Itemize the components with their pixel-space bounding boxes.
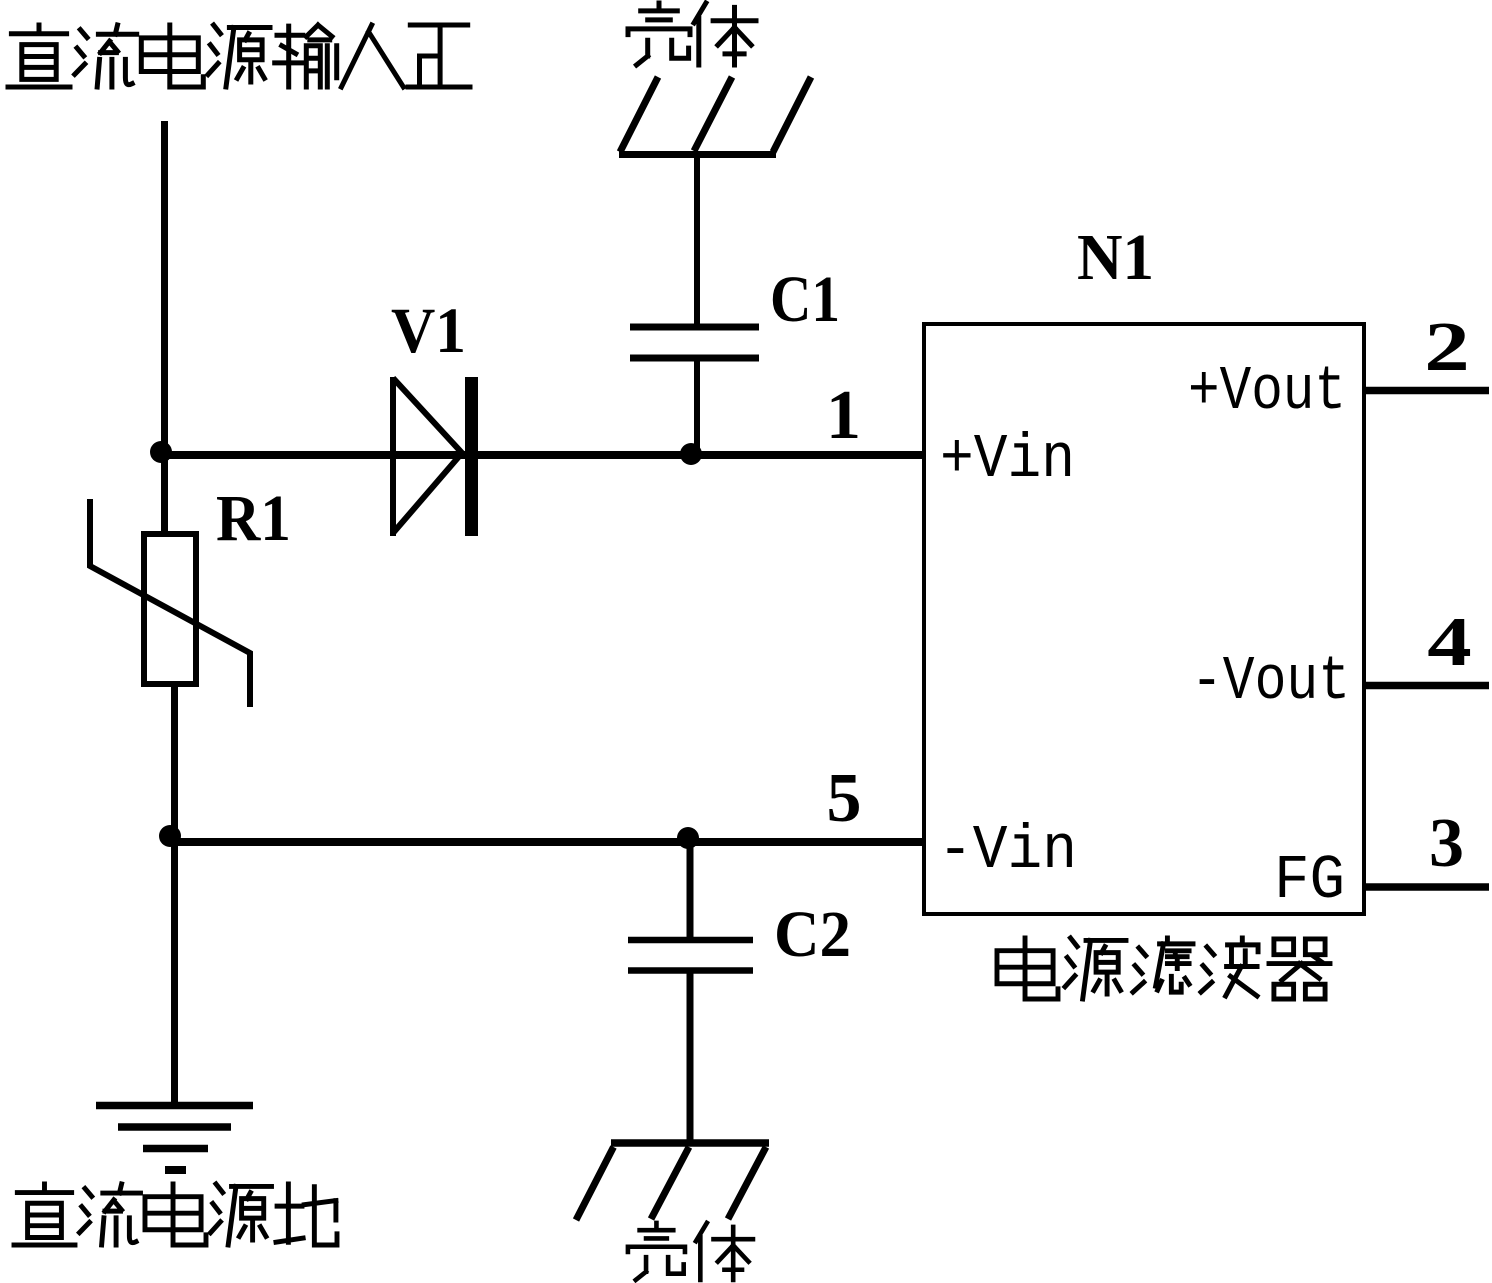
svg-text:FG: FG bbox=[1274, 845, 1345, 916]
svg-text:V1: V1 bbox=[391, 295, 466, 367]
svg-text:N1: N1 bbox=[1077, 221, 1154, 294]
svg-text:+Vin: +Vin bbox=[940, 424, 1075, 495]
svg-text:-Vin: -Vin bbox=[938, 815, 1077, 886]
svg-text:+Vout: +Vout bbox=[1188, 356, 1346, 427]
svg-text:4: 4 bbox=[1427, 604, 1471, 681]
svg-text:R1: R1 bbox=[216, 482, 291, 555]
svg-text:-Vout: -Vout bbox=[1191, 646, 1350, 717]
svg-text:3: 3 bbox=[1429, 805, 1464, 882]
svg-text:C2: C2 bbox=[774, 898, 851, 971]
svg-text:5: 5 bbox=[827, 760, 862, 837]
svg-text:2: 2 bbox=[1424, 308, 1470, 386]
svg-text:1: 1 bbox=[826, 377, 861, 454]
svg-text:C1: C1 bbox=[770, 263, 840, 336]
